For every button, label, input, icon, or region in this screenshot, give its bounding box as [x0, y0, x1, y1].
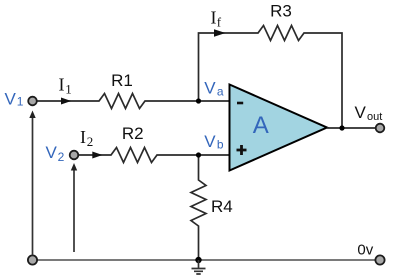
svg-text:b: b [217, 138, 224, 152]
svg-text:a: a [217, 84, 224, 98]
wire 0v rail [37, 259, 376, 261]
wire output to Vout [327, 127, 376, 129]
svg-text:1: 1 [65, 82, 72, 97]
terminal V2 [70, 151, 79, 160]
svg-text:2: 2 [58, 150, 65, 164]
svg-text:R2: R2 [122, 124, 144, 143]
wire voltage arrow V2 up to terminal V2 [73, 170, 75, 253]
svg-text:out: out [367, 111, 382, 123]
op-amp U1 triangle [230, 85, 328, 171]
svg-text:0v: 0v [357, 242, 373, 259]
terminal V1 [28, 97, 37, 106]
terminal 0v right [375, 255, 384, 264]
wire bottom input V2 to op-amp non-inverting input [79, 148, 230, 163]
svg-text:V: V [204, 79, 216, 98]
node output junction dot [339, 125, 344, 130]
svg-text:V: V [355, 103, 367, 122]
wire R4 branch from node Vb down to 0v rail [191, 155, 206, 258]
svg-text:R1: R1 [111, 71, 133, 90]
wire voltage arrow V1 from rail up to terminal V1 [32, 117, 34, 256]
svg-text:V: V [5, 89, 17, 108]
svg-text:I: I [80, 127, 86, 147]
op-amp inverting input minus sign [237, 102, 243, 105]
node rail junction dot [195, 257, 201, 263]
svg-text:A: A [253, 112, 269, 139]
wire feedback loop with R3 [199, 26, 343, 129]
svg-text:I: I [211, 8, 217, 28]
arrow If current arrowhead [214, 29, 226, 36]
svg-text:R4: R4 [211, 197, 233, 216]
svg-text:R3: R3 [270, 2, 292, 21]
svg-text:f: f [217, 15, 222, 30]
svg-text:2: 2 [87, 134, 94, 149]
wire top input V1 to op-amp inverting input [37, 94, 229, 109]
svg-text:V: V [46, 143, 58, 162]
svg-text:I: I [59, 75, 65, 95]
node Vb junction dot [196, 152, 201, 157]
svg-text:V: V [204, 132, 216, 151]
terminal Vout [376, 124, 385, 133]
svg-text:1: 1 [17, 95, 24, 109]
arrow I1 current arrowhead [61, 98, 71, 105]
op-amp non-inverting input plus sign [237, 145, 247, 155]
ground [192, 260, 206, 274]
node Va junction dot [196, 98, 201, 103]
arrow I2 current arrowhead [92, 152, 102, 159]
terminal 0v rail left [28, 255, 37, 264]
